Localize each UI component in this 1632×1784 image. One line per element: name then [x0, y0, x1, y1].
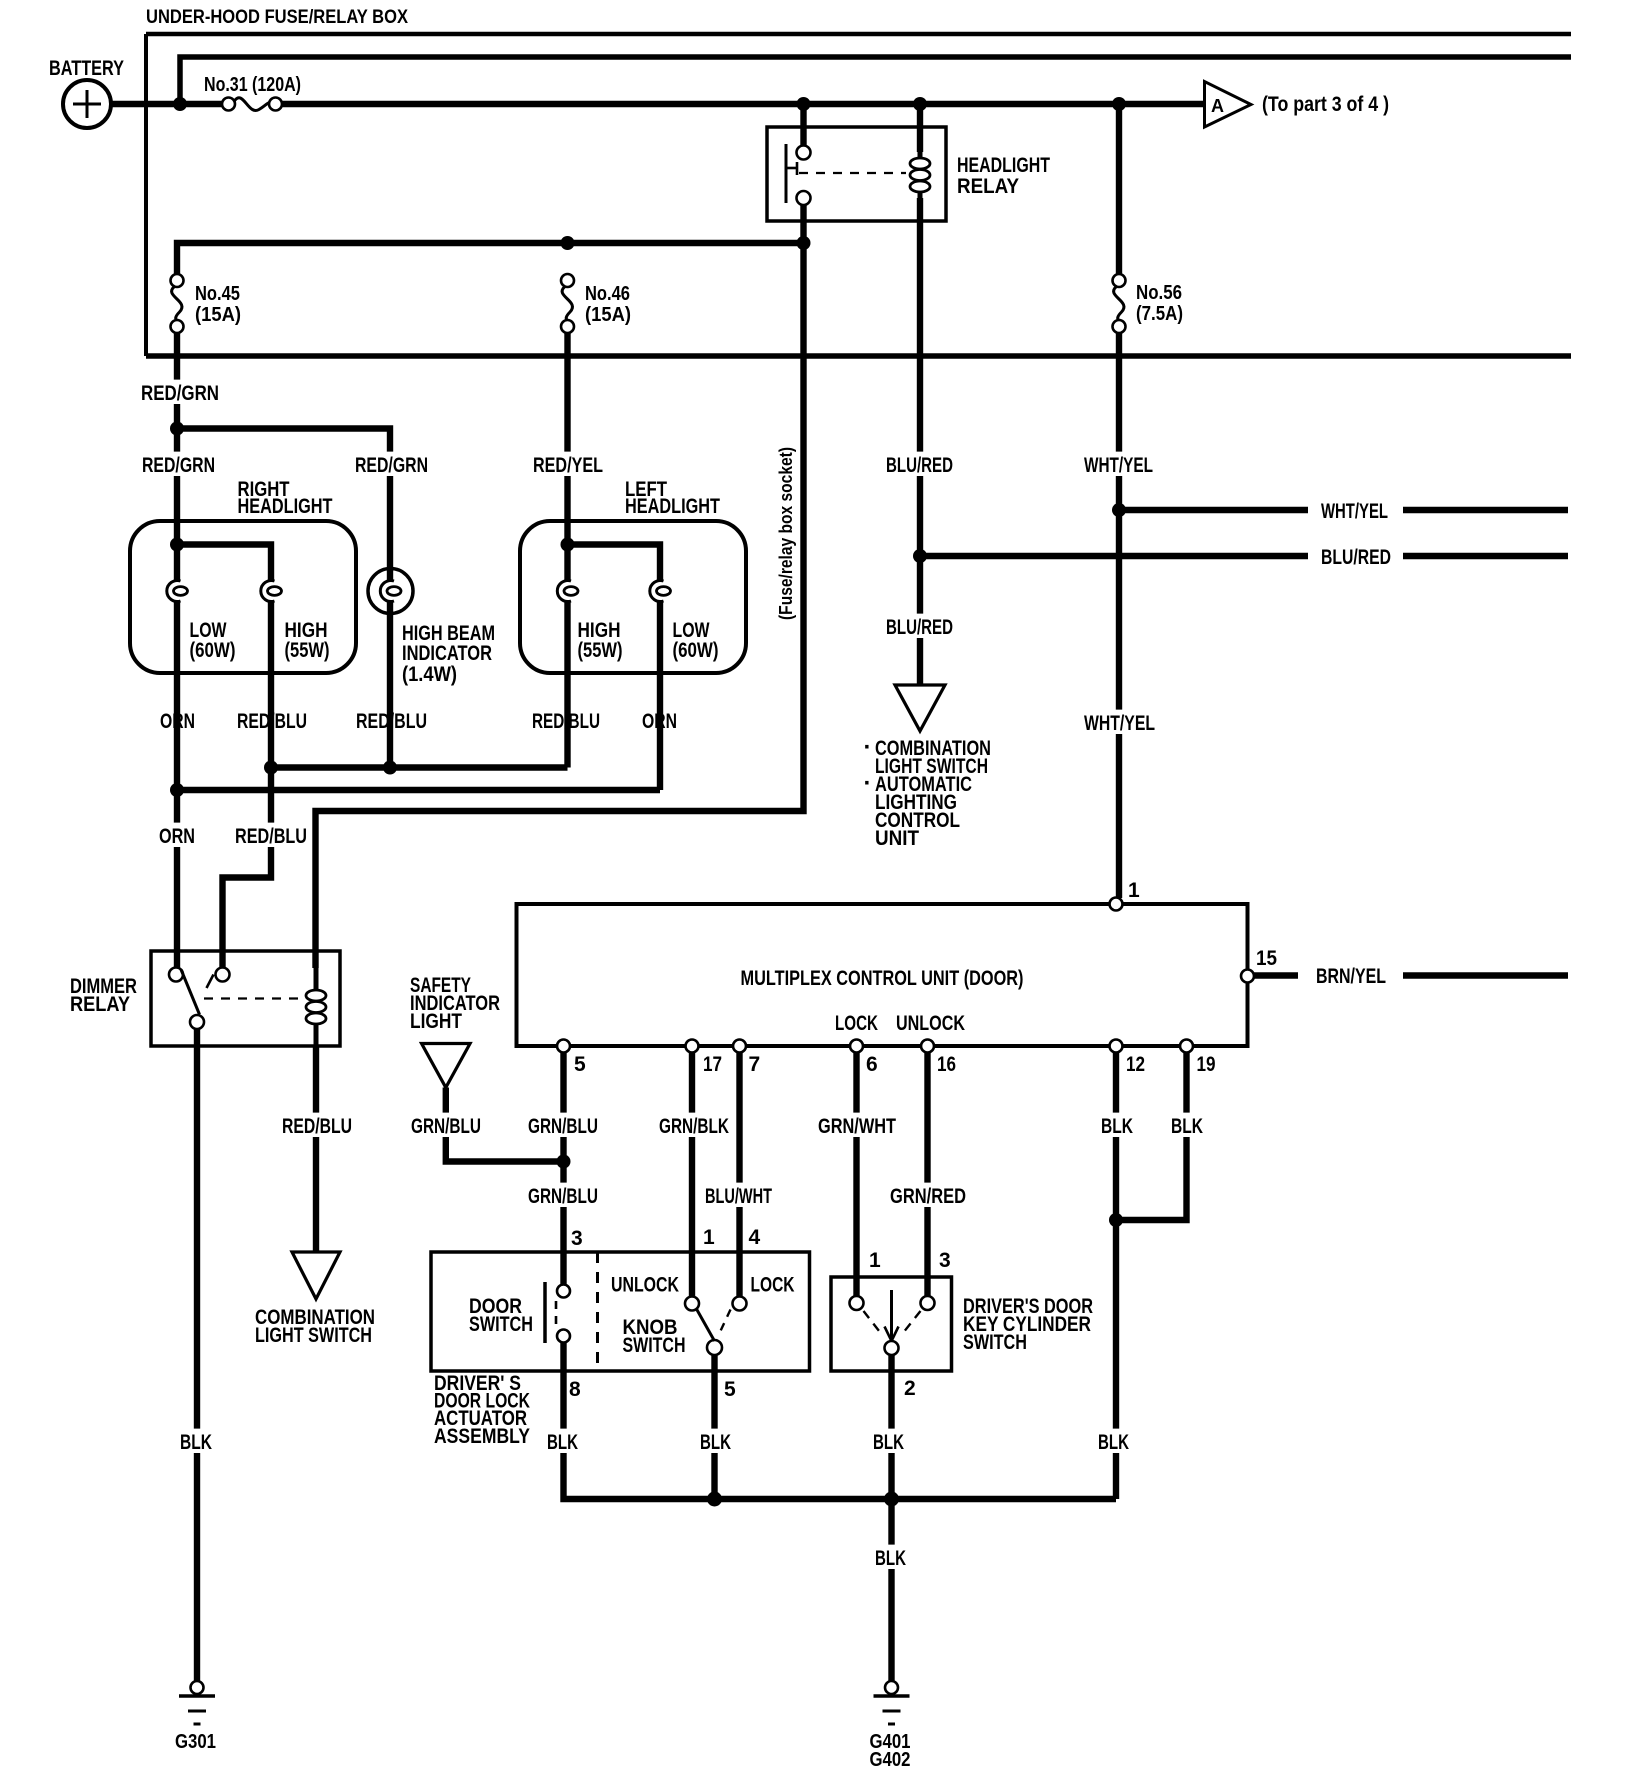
svg-text:WHT/YEL: WHT/YEL — [1084, 712, 1155, 735]
key cylinder switch contacts — [850, 1296, 864, 1310]
wire RED/BLU bus to dimmer — [271, 764, 568, 770]
node WHT/YEL branch junction — [1112, 503, 1126, 517]
door switch contacts — [543, 1282, 547, 1343]
wire BRN/YEL from pin 15 — [1254, 972, 1298, 978]
multiplex pin 12 — [1110, 1040, 1123, 1053]
svg-text:UNIT: UNIT — [875, 827, 919, 850]
label ORN right low — [156, 708, 199, 732]
node BLK junction pins 12/19 — [1109, 1213, 1123, 1227]
node battery feed junction — [173, 97, 187, 111]
svg-text:GRN/BLK: GRN/BLK — [659, 1115, 729, 1138]
svg-text:HEADLIGHT: HEADLIGHT — [957, 154, 1050, 177]
wire fuse No.46 to left headlight — [564, 333, 570, 581]
wire WHT/YEL branch right — [1119, 507, 1308, 513]
left headlight high beam bulb (55W) — [557, 581, 571, 602]
svg-text:GRN/RED: GRN/RED — [890, 1185, 966, 1208]
svg-text:(15A): (15A) — [195, 304, 241, 326]
label RED/GRN upper — [137, 380, 223, 404]
svg-text:(60W): (60W) — [673, 639, 719, 662]
svg-text:(To part 3 of 4 ): (To part 3 of 4 ) — [1262, 93, 1389, 116]
wire right high RED/BLU jog to dimmer — [223, 768, 272, 969]
label RED/BLU lower — [231, 823, 311, 847]
svg-text:·: · — [864, 770, 872, 797]
fuse No.56 (7.5A) — [1113, 274, 1126, 287]
wire main feed to relay contact — [800, 104, 806, 146]
wire RED/GRN branch to high beam indicator — [177, 429, 390, 582]
label WHT/YEL upper — [1080, 452, 1157, 476]
node right headlight feed junction — [170, 538, 184, 552]
wire left low bulb down (ORN) — [657, 601, 663, 790]
label BLK dimmer — [176, 1429, 216, 1453]
arrow A (to part 3 of 4) — [1205, 82, 1252, 128]
arrow to combination light switch / automatic lighting control unit — [895, 685, 945, 731]
wire key cylinder common to ground (BLK) — [888, 1355, 894, 1681]
svg-text:2: 2 — [904, 1377, 916, 1400]
svg-text:UNLOCK: UNLOCK — [896, 1012, 965, 1035]
svg-text:(60W): (60W) — [190, 639, 236, 662]
svg-text:BLK: BLK — [875, 1547, 906, 1570]
label BLU/RED upper — [882, 452, 957, 476]
label GRN/BLU lower — [524, 1183, 602, 1207]
multiplex pin 19 — [1180, 1040, 1193, 1053]
svg-text:No.46: No.46 — [585, 283, 630, 305]
svg-text:(55W): (55W) — [578, 639, 623, 662]
svg-text:BLK: BLK — [1171, 1115, 1203, 1138]
label GRN/BLK — [655, 1113, 733, 1137]
svg-text:WHT/YEL: WHT/YEL — [1321, 500, 1388, 523]
svg-text:GRN/BLU: GRN/BLU — [411, 1115, 481, 1138]
wire fuse No.45 to right headlight — [174, 333, 180, 581]
svg-text:5: 5 — [724, 1378, 736, 1401]
multiplex control unit (door) box — [517, 904, 1248, 1046]
svg-text:17: 17 — [703, 1053, 722, 1076]
svg-text:SWITCH: SWITCH — [623, 1334, 686, 1357]
wire BRN/YEL stub right edge — [1403, 972, 1568, 978]
svg-text:(Fuse/relay box socket): (Fuse/relay box socket) — [776, 447, 796, 620]
svg-text:6: 6 — [866, 1053, 878, 1076]
wire pin 6 to key cylinder (GRN/WHT) — [853, 1053, 859, 1297]
svg-text:8: 8 — [569, 1378, 581, 1401]
wire door switch to ground bus (BLK) — [564, 1343, 1117, 1500]
svg-text:7: 7 — [749, 1053, 761, 1076]
headlight relay dashed link — [799, 172, 906, 174]
wire fuse No.31 to arrow A — [281, 101, 1203, 107]
multiplex pin 6 — [850, 1040, 863, 1053]
label GRN/RED — [886, 1183, 970, 1207]
label RED/GRN left — [138, 452, 219, 476]
headlight relay coil — [917, 104, 923, 152]
multiplex pin 1 — [1110, 898, 1123, 911]
svg-text:RED/BLU: RED/BLU — [235, 825, 307, 848]
node relay contact junction — [797, 236, 811, 250]
fuse No.31 (120A) — [222, 98, 235, 111]
label BLU/WHT — [701, 1183, 776, 1207]
wire headlight relay coil to combination light switch (BLU/RED) — [917, 198, 923, 685]
svg-text:No.56: No.56 — [1136, 282, 1182, 304]
svg-text:LIGHT SWITCH: LIGHT SWITCH — [255, 1324, 372, 1347]
svg-text:RED/BLU: RED/BLU — [282, 1115, 352, 1138]
svg-text:G402: G402 — [870, 1749, 911, 1771]
svg-text:BLK: BLK — [180, 1431, 212, 1454]
svg-text:BLU/RED: BLU/RED — [886, 454, 953, 477]
svg-text:3: 3 — [571, 1227, 583, 1250]
node left headlight feed junction — [561, 538, 575, 552]
label ORN lower — [155, 823, 199, 847]
svg-text:LIGHT: LIGHT — [410, 1010, 462, 1033]
wire pin 19 to ground bus (BLK) — [1116, 1053, 1187, 1221]
svg-text:RELAY: RELAY — [70, 993, 130, 1016]
battery B1 — [63, 80, 111, 128]
label RED/BLU right high — [233, 708, 311, 732]
svg-text:HEADLIGHT: HEADLIGHT — [238, 495, 333, 518]
right headlight lamp housing — [130, 521, 356, 673]
label BLK pin 12 lower — [1094, 1429, 1133, 1453]
wire BLU/RED branch right — [920, 553, 1308, 559]
svg-text:(7.5A): (7.5A) — [1136, 303, 1183, 325]
svg-text:UNLOCK: UNLOCK — [611, 1274, 679, 1297]
ground G401 G402 — [885, 1681, 898, 1694]
knob switch contacts — [685, 1297, 699, 1311]
wire safety indicator light GRN/BLU — [446, 1088, 564, 1162]
wire main feed to fuse No.56 — [1116, 104, 1122, 274]
label ORN left low — [638, 708, 681, 732]
node key cylinder ground junction — [884, 1492, 899, 1507]
under-hood fuse/relay box outline — [146, 32, 1571, 37]
svg-text:BRN/YEL: BRN/YEL — [1316, 965, 1386, 988]
svg-text:15: 15 — [1256, 947, 1277, 970]
wire pin 16 to key cylinder (GRN/RED) — [924, 1053, 930, 1297]
left headlight low beam bulb (60W) — [650, 581, 664, 602]
svg-text:No.45: No.45 — [195, 283, 240, 305]
ground G301 — [191, 1681, 204, 1694]
svg-text:BLU/WHT: BLU/WHT — [705, 1185, 772, 1208]
wire dimmer common to ground G301 (BLK) — [194, 1029, 200, 1681]
svg-text:(15A): (15A) — [585, 304, 631, 326]
node GRN/BLU junction — [557, 1155, 571, 1169]
svg-text:WHT/YEL: WHT/YEL — [1084, 454, 1153, 477]
node fuse No.46 tap — [561, 236, 575, 250]
svg-text:BLK: BLK — [700, 1431, 731, 1454]
svg-text:SWITCH: SWITCH — [469, 1313, 533, 1336]
svg-text:16: 16 — [937, 1053, 956, 1076]
svg-text:RED/GRN: RED/GRN — [142, 454, 215, 477]
svg-text:BLK: BLK — [1101, 1115, 1133, 1138]
label WHT/YEL lower — [1080, 710, 1159, 734]
svg-text:3: 3 — [939, 1249, 951, 1272]
svg-text:BLK: BLK — [873, 1431, 904, 1454]
wire battery to fuse No.31 — [111, 101, 223, 107]
multiplex pin 16 — [921, 1040, 934, 1053]
dimmer relay switch contacts — [169, 968, 183, 982]
multiplex pin 7 — [733, 1040, 746, 1053]
label RED/GRN branch — [351, 452, 432, 476]
svg-text:ASSEMBLY: ASSEMBLY — [434, 1425, 530, 1448]
svg-text:GRN/BLU: GRN/BLU — [528, 1185, 598, 1208]
right headlight low beam bulb (60W) — [167, 581, 181, 602]
wire fuse/relay box socket drop — [316, 243, 804, 968]
svg-text:1: 1 — [703, 1226, 715, 1249]
headlight relay U1 box — [767, 127, 946, 221]
svg-text:5: 5 — [574, 1053, 586, 1076]
label BLK pin12 — [1097, 1113, 1137, 1137]
label BLK knob switch — [696, 1429, 735, 1453]
node headlight relay contact tap — [797, 97, 811, 111]
svg-text:ORN: ORN — [159, 825, 195, 848]
wire ORN bus — [177, 787, 660, 793]
arrow from safety indicator light — [422, 1044, 471, 1088]
label BLK pin19 — [1167, 1113, 1207, 1137]
node ORN bus junction — [170, 783, 184, 797]
label BLU/RED lower — [882, 614, 957, 638]
multiplex pin 15 — [1241, 970, 1254, 983]
label RED/YEL — [529, 452, 607, 476]
wire pin 12 to ground bus (BLK) — [1113, 1053, 1119, 1500]
wire WHT/YEL stub right edge — [1403, 507, 1568, 513]
svg-text:BATTERY: BATTERY — [49, 57, 124, 80]
svg-text:No.31 (120A): No.31 (120A) — [204, 74, 301, 96]
label RED/BLU indicator — [352, 708, 431, 732]
svg-text:GRN/BLU: GRN/BLU — [528, 1115, 598, 1138]
wire dimmer coil to combination light switch (RED/BLU) — [313, 1046, 319, 1252]
label BLK door switch — [543, 1429, 582, 1453]
svg-text:(1.4W): (1.4W) — [402, 663, 457, 686]
svg-text:RED/YEL: RED/YEL — [533, 454, 603, 477]
fuse No.46 (15A) — [561, 274, 574, 287]
svg-text:G301: G301 — [175, 1731, 216, 1753]
fuse No.45 (15A) — [171, 274, 184, 287]
svg-text:(55W): (55W) — [285, 639, 330, 662]
svg-text:1: 1 — [1128, 879, 1140, 902]
wire indicator bulb down (RED/BLU) — [387, 614, 393, 768]
dimmer relay coil — [314, 968, 319, 1046]
svg-text:RED/GRN: RED/GRN — [355, 454, 428, 477]
svg-text:BLU/RED: BLU/RED — [1321, 546, 1391, 569]
svg-text:RELAY: RELAY — [957, 175, 1019, 198]
headlight relay contact — [785, 144, 788, 203]
multiplex pin 17 — [686, 1040, 699, 1053]
svg-text:19: 19 — [1197, 1053, 1216, 1076]
wire left high bulb down (RED/BLU) — [564, 601, 570, 768]
svg-text:BLK: BLK — [1098, 1431, 1129, 1454]
svg-text:BLK: BLK — [547, 1431, 578, 1454]
driver's door key cylinder switch box — [831, 1277, 952, 1371]
wire relay contact to fuse bus — [800, 204, 806, 243]
node knob switch ground junction — [707, 1492, 722, 1507]
wire right headlight internal branch — [177, 545, 271, 582]
left headlight lamp housing — [520, 521, 746, 673]
wire pin 7 to knob switch lock (BLU/WHT) — [736, 1053, 742, 1297]
driver's door lock actuator assembly box — [431, 1252, 810, 1371]
right headlight high beam bulb (55W) — [261, 581, 275, 602]
node RED/GRN branch junction — [170, 422, 184, 436]
svg-text:A: A — [1211, 96, 1224, 116]
label BLK ground lead — [871, 1545, 910, 1569]
wire knob switch common to ground bus (BLK) — [711, 1355, 717, 1499]
svg-text:12: 12 — [1126, 1053, 1145, 1076]
wire bus inside fuse box — [180, 57, 1571, 104]
svg-text:RED/GRN: RED/GRN — [141, 382, 219, 405]
wire pin 5 to door switch (GRN/BLU) — [560, 1053, 566, 1286]
wire BLU/RED stub right edge — [1403, 553, 1568, 559]
svg-text:4: 4 — [749, 1226, 761, 1249]
svg-text:·: · — [864, 734, 872, 761]
wire fuse No.56 to multiplex pin 1 (WHT/YEL) — [1116, 333, 1122, 898]
node RED/BLU bus indicator — [383, 761, 397, 775]
multiplex pin 5 — [557, 1040, 570, 1053]
label GRN/BLU pin5 — [524, 1113, 602, 1137]
actuator internal divider — [596, 1252, 599, 1371]
node fuse No.56 tap — [1112, 97, 1126, 111]
label BLK key cylinder — [869, 1429, 908, 1453]
node BLU/RED branch junction — [913, 549, 927, 563]
svg-text:MULTIPLEX CONTROL UNIT (DOOR): MULTIPLEX CONTROL UNIT (DOOR) — [741, 967, 1024, 990]
high beam indicator bulb (1.4W) — [368, 569, 413, 614]
svg-text:1: 1 — [869, 1249, 881, 1272]
svg-text:UNDER-HOOD FUSE/RELAY BOX: UNDER-HOOD FUSE/RELAY BOX — [146, 7, 408, 28]
wire pin 17 to knob switch unlock (GRN/BLK) — [689, 1053, 695, 1297]
wire right low bulb down (ORN) — [174, 601, 180, 968]
svg-text:LOCK: LOCK — [751, 1274, 795, 1297]
svg-text:BLU/RED: BLU/RED — [886, 616, 953, 639]
dimmer relay dashed link — [204, 997, 302, 999]
dimmer relay U2 box — [151, 951, 340, 1046]
svg-text:LOCK: LOCK — [835, 1012, 878, 1035]
svg-text:GRN/WHT: GRN/WHT — [818, 1115, 896, 1138]
wire right high bulb down (RED/BLU) — [268, 601, 274, 768]
label RED/BLU left high — [528, 708, 604, 732]
node RED/BLU bus right high — [264, 761, 278, 775]
svg-text:HEADLIGHT: HEADLIGHT — [625, 495, 720, 518]
wire left headlight internal branch — [568, 545, 661, 582]
label GRN/WHT — [814, 1113, 900, 1137]
svg-text:SWITCH: SWITCH — [963, 1331, 1027, 1354]
arrow to combination light switch — [292, 1252, 340, 1299]
wire fused feed bus y243 — [177, 243, 804, 274]
svg-text:INDICATOR: INDICATOR — [402, 642, 492, 665]
node headlight relay coil tap — [913, 97, 927, 111]
label RED/BLU dimmer coil — [278, 1113, 356, 1137]
label GRN/BLU safety — [407, 1113, 485, 1137]
